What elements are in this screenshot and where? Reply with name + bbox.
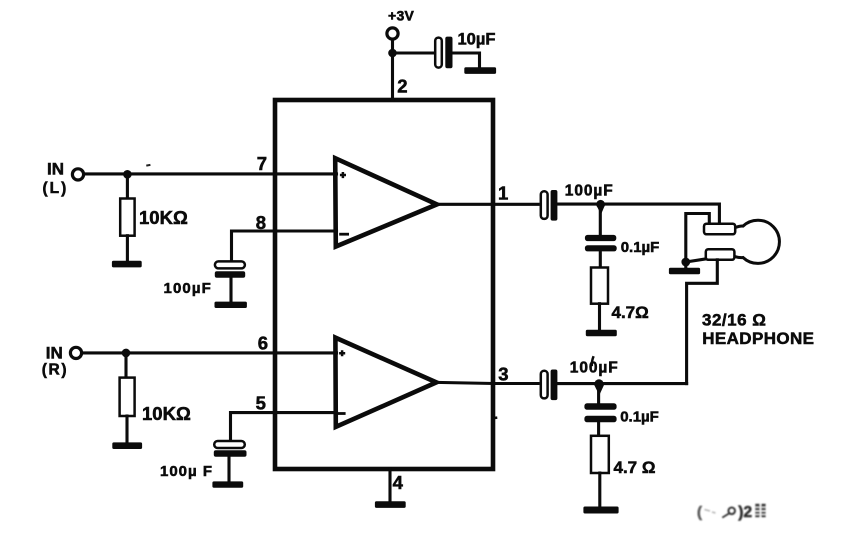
svg-text:IN: IN xyxy=(47,159,64,178)
wire C3 to headphone top xyxy=(558,204,720,223)
ground (R1) xyxy=(112,261,142,268)
resistor R2 10K xyxy=(120,378,135,416)
capacitor C3 100uF xyxy=(541,190,558,221)
capacitor C5 0.1uF xyxy=(585,235,617,252)
wire L node to C5 xyxy=(599,204,602,233)
headphone transducer upper xyxy=(704,224,735,235)
svg-text:10KΩ: 10KΩ xyxy=(139,207,188,228)
resistor R1 10K xyxy=(120,199,134,236)
wire R4 to ground xyxy=(598,473,601,506)
wire +3V to pin 2 xyxy=(391,40,394,101)
wire input R node to R2 xyxy=(124,353,127,378)
svg-text:5: 5 xyxy=(256,392,266,413)
wire input R / pin 6 xyxy=(82,351,337,354)
wire input L / pin 7 xyxy=(84,172,337,175)
wire R3 to ground xyxy=(598,304,601,330)
wire pin 4 to ground xyxy=(388,469,391,501)
junction input R node xyxy=(122,349,131,358)
input terminal R xyxy=(70,347,81,358)
wire pin 8 to C1 xyxy=(232,231,337,261)
svg-text:100µF: 100µF xyxy=(565,182,614,199)
svg-text:IN: IN xyxy=(46,343,63,362)
capacitor C1 100uF xyxy=(215,261,245,277)
svg-text:+3V: +3V xyxy=(388,8,415,24)
junction input L node xyxy=(123,170,132,179)
svg-text:32/16 Ω: 32/16 Ω xyxy=(702,311,766,330)
wire pin 1 to C3 xyxy=(437,203,538,206)
headphone left bracket wire xyxy=(686,214,710,263)
wire pin 5 to C2 xyxy=(231,413,337,441)
svg-text:100µ F: 100µ F xyxy=(160,463,213,480)
wire R node to C6 xyxy=(597,384,600,404)
junction R output node xyxy=(594,379,605,395)
svg-text:6: 6 xyxy=(258,333,268,354)
artifact speck xyxy=(146,164,150,167)
power terminal +3V xyxy=(387,28,398,39)
input terminal L xyxy=(72,169,83,180)
junction +3V node xyxy=(388,49,397,58)
svg-text:4.7Ω: 4.7Ω xyxy=(612,303,649,322)
wire C5 to R3 xyxy=(599,253,602,268)
IC U1 body xyxy=(275,100,493,469)
wire lower transducer to R channel xyxy=(687,260,718,384)
wire common to ground xyxy=(684,262,687,268)
junction headphone common xyxy=(681,258,690,267)
op-amp U1b (right channel) xyxy=(335,338,437,427)
wire R2 to ground xyxy=(125,416,128,442)
wire C4 to headphone bottom feed xyxy=(558,382,687,385)
ground (C1) xyxy=(215,302,247,308)
svg-text:7: 7 xyxy=(257,153,267,174)
capacitor C6 0.1uF xyxy=(584,403,616,422)
capacitor C2 100uF xyxy=(214,441,247,457)
ground (top, C7) xyxy=(464,67,496,74)
svg-text:(R): (R) xyxy=(42,361,68,378)
label IN (L) xyxy=(43,159,69,196)
watermark remnant xyxy=(697,504,766,521)
ground (C2) xyxy=(212,481,243,487)
ground (R2) xyxy=(112,442,142,449)
ground (headphone) xyxy=(669,268,700,275)
svg-text:2: 2 xyxy=(397,75,407,96)
svg-text:100µF: 100µF xyxy=(570,359,619,376)
svg-text:)2: )2 xyxy=(738,504,752,521)
capacitor C7 10uF xyxy=(435,37,452,69)
op-amp U1a (left channel) xyxy=(335,158,437,246)
svg-text:(: ( xyxy=(697,504,702,521)
svg-text:3: 3 xyxy=(498,364,508,385)
wire C7 to ground xyxy=(453,53,480,67)
wire C6 to R4 xyxy=(597,422,600,436)
svg-text:100µF: 100µF xyxy=(164,280,212,297)
wire input L node to R1 xyxy=(126,174,129,198)
svg-text:1: 1 xyxy=(498,183,508,204)
capacitor C4 100uF xyxy=(541,370,558,401)
ground (pin 4) xyxy=(375,501,406,508)
wire R1 to ground xyxy=(126,236,129,261)
artifact tick over label xyxy=(592,356,594,366)
wire common to lower transducer xyxy=(686,259,707,262)
resistor R4 4.7 ohm xyxy=(591,436,609,473)
svg-text:4.7 Ω: 4.7 Ω xyxy=(614,458,656,477)
svg-text:10KΩ: 10KΩ xyxy=(142,403,191,424)
junction L output node xyxy=(596,200,605,215)
headphone transducer lower xyxy=(706,249,735,260)
svg-text:10µF: 10µF xyxy=(458,31,496,49)
wire pin 3 to C4 xyxy=(436,382,538,383)
ground (R4) xyxy=(583,507,618,514)
wire +3V node to C7 xyxy=(393,51,437,54)
svg-text:0.1µF: 0.1µF xyxy=(621,239,660,256)
headphone driver dome xyxy=(734,220,779,263)
wire C1 to ground xyxy=(229,278,232,302)
wire C2 to ground xyxy=(227,457,230,482)
resistor R3 4.7 ohm xyxy=(591,268,608,304)
svg-text:(L): (L) xyxy=(43,180,69,197)
svg-text:4: 4 xyxy=(393,472,404,493)
artifact speck right edge xyxy=(492,416,497,419)
label IN (R) xyxy=(42,343,68,378)
svg-text:0.1µF: 0.1µF xyxy=(620,408,659,425)
svg-text:HEADPHONE: HEADPHONE xyxy=(702,329,814,348)
ground (R3) xyxy=(586,330,617,337)
